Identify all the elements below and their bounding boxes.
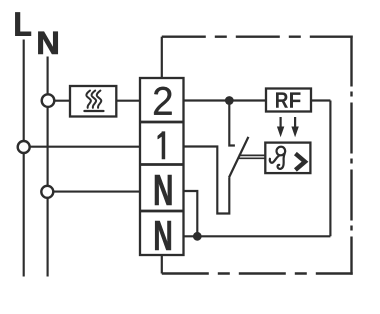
enclosure dash-dot border bottom xyxy=(162,272,353,274)
RF signal arrow 1 xyxy=(277,117,284,137)
terminal 1 label xyxy=(158,131,166,159)
wire heater to terminal 2 xyxy=(116,100,140,102)
wire N to terminal N1 xyxy=(47,191,140,193)
terminal N(2) label xyxy=(155,221,171,250)
node L label xyxy=(16,13,31,36)
wire right bus down xyxy=(329,101,331,237)
terminal circle on N line (neutral feed) xyxy=(41,186,53,198)
thermostat greater-than symbol xyxy=(295,154,305,170)
RF signal arrow 2 xyxy=(291,117,298,137)
enclosure dash-dot border right xyxy=(350,36,352,275)
wire terminal N2 bottom to enclosure corner xyxy=(161,255,163,274)
wire terminal 1 to switch pivot xyxy=(184,147,230,214)
wire RF to right bus xyxy=(311,99,330,101)
RF label F xyxy=(290,92,301,107)
RF label R xyxy=(276,92,288,107)
terminal N(1) label xyxy=(155,175,172,205)
node N label xyxy=(39,32,58,54)
wire L supply line xyxy=(23,40,25,277)
switch fixed contact from junction xyxy=(229,101,235,146)
wire N supply line xyxy=(47,57,49,277)
junction dot at switch feed xyxy=(225,96,234,105)
switch blade xyxy=(229,137,248,178)
enclosure dash-dot border top xyxy=(162,36,353,38)
terminal 2 label xyxy=(154,87,172,115)
terminal divider 1/N xyxy=(140,163,184,166)
wire bottom bus to terminal N2 xyxy=(184,235,331,237)
heating element symbol (3 wavy flames over bar) xyxy=(84,91,103,111)
terminal circle on L line xyxy=(18,141,30,153)
mechanical linkage double line xyxy=(239,154,266,156)
wire terminal 2 to RF xyxy=(184,99,267,101)
wire terminal N1 to neutral bus xyxy=(184,191,198,236)
RF receiver box U1 xyxy=(266,89,311,112)
junction dot on neutral bus xyxy=(193,232,202,241)
wire terminal 2 top to enclosure corner xyxy=(161,37,163,78)
wire L to terminal 1 xyxy=(24,146,141,148)
thermostat theta symbol xyxy=(270,147,285,169)
terminal divider N/N xyxy=(140,210,184,213)
terminal block outline xyxy=(140,78,184,255)
wire N to heater xyxy=(48,100,70,102)
thermostat box U2 xyxy=(265,143,310,174)
heater (load) box xyxy=(70,86,116,117)
terminal circle on N line (heater feed) xyxy=(42,94,55,107)
terminal divider 2/1 xyxy=(140,121,184,124)
